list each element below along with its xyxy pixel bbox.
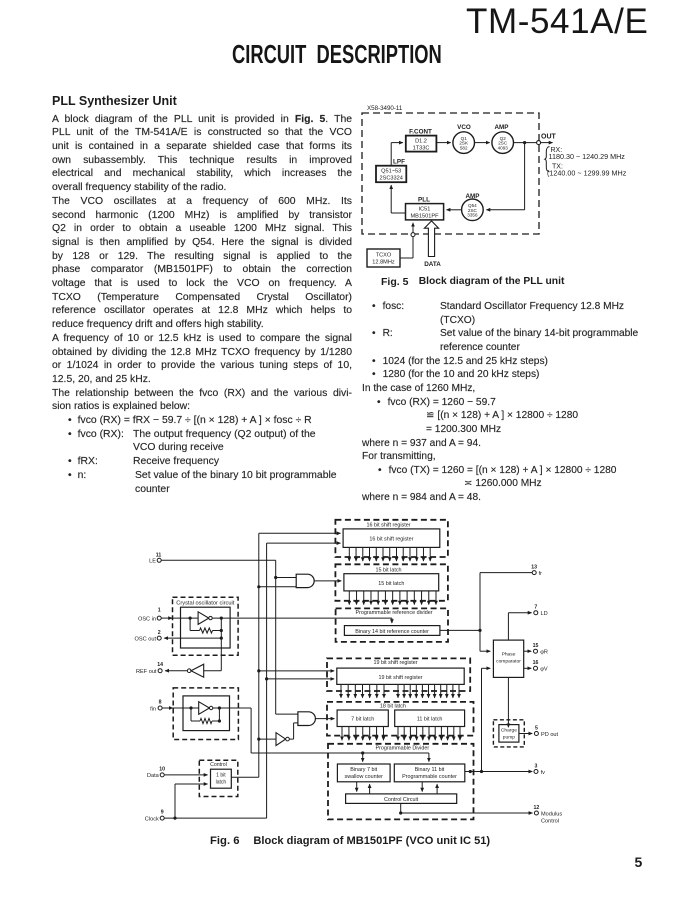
svg-text:Binary 11 bit: Binary 11 bit	[415, 767, 445, 773]
heading CIRCUIT DESCRIPTION	[232, 39, 442, 70]
svg-text:TCXO: TCXO	[376, 253, 392, 259]
svg-text:fr: fr	[539, 571, 543, 577]
svg-text:2SC3324: 2SC3324	[380, 176, 403, 182]
wire AND1 output to 15 bit latch	[314, 580, 341, 582]
Binary 7 bit swallow counter box	[337, 764, 390, 782]
pin 15 phiR terminal	[524, 643, 548, 656]
svg-text:LD: LD	[541, 611, 548, 617]
pin 2 OSC out terminal	[135, 630, 162, 643]
svg-text:φV: φV	[540, 667, 548, 673]
svg-text:Clock: Clock	[145, 816, 159, 822]
svg-text:15: 15	[533, 643, 539, 649]
wire OSC in through inverter to reference divider	[161, 618, 392, 623]
fin inverter U2	[199, 702, 213, 715]
svg-text:Data: Data	[147, 773, 160, 779]
svg-text:Control: Control	[541, 818, 559, 824]
svg-text:D1.2: D1.2	[415, 139, 427, 145]
svg-text:Q51~53: Q51~53	[381, 169, 401, 175]
left column body text	[52, 113, 352, 497]
pin 9 Clock terminal	[145, 810, 164, 823]
LPF label	[393, 159, 405, 166]
svg-text:DATA: DATA	[424, 261, 441, 268]
svg-text:9: 9	[161, 810, 164, 816]
pin 14 REF out terminal	[136, 662, 163, 675]
svg-text:latch: latch	[216, 779, 227, 785]
svg-text:Phase: Phase	[502, 652, 516, 658]
svg-text:Programmable reference divider: Programmable reference divider	[355, 610, 432, 616]
16 bit shift register box	[343, 529, 440, 548]
svg-text:15 bit latch: 15 bit latch	[378, 581, 404, 587]
svg-text:OSC out: OSC out	[135, 636, 157, 642]
18 bit latch dashed box	[327, 702, 474, 736]
fr riser wire	[480, 573, 532, 652]
svg-text:16 bit shift register: 16 bit shift register	[369, 537, 413, 543]
svg-text:7 bit latch: 7 bit latch	[351, 717, 374, 723]
wire fin to programmable divider	[162, 708, 429, 762]
svg-text:16: 16	[533, 660, 539, 666]
wire reference counter to fr node	[440, 629, 482, 632]
VCO transistor Q1 2SK582 circle	[453, 132, 475, 154]
svg-text:IC51: IC51	[419, 206, 431, 212]
svg-text:pump: pump	[503, 736, 516, 741]
wire Q54 to PLL	[447, 209, 462, 211]
svg-text:10: 10	[159, 766, 165, 772]
wire data bus to 16SR input	[259, 532, 341, 534]
AND gate A2 (LE strobe lower)	[298, 712, 316, 726]
OUT terminal	[537, 134, 557, 145]
pin 12 Modulus Control terminal	[534, 805, 563, 825]
pin 5 PD out terminal	[519, 725, 559, 738]
svg-text:1180.30 ~ 1240.29 MHz: 1180.30 ~ 1240.29 MHz	[549, 152, 626, 161]
svg-text:19 bit shift register: 19 bit shift register	[378, 675, 422, 681]
svg-text:X58-3490-11: X58-3490-11	[367, 105, 403, 112]
fin feedback resistor R2	[189, 706, 221, 723]
svg-text:LPF: LPF	[393, 159, 405, 166]
svg-text:15 bit latch: 15 bit latch	[375, 568, 401, 574]
svg-text:4093: 4093	[498, 145, 509, 150]
svg-text:12.8MHz: 12.8MHz	[372, 260, 395, 266]
Control dashed box	[199, 760, 238, 796]
svg-text:fv: fv	[541, 770, 546, 776]
svg-text:19 bit shift register: 19 bit shift register	[373, 660, 417, 666]
arrows 19SR to 18bit latch	[341, 684, 459, 697]
svg-text:Programmable Divider: Programmable Divider	[375, 746, 429, 752]
svg-text:OSC in: OSC in	[138, 616, 156, 622]
svg-text:REF out: REF out	[136, 669, 157, 675]
wire AND1 lower input from data bus	[257, 585, 296, 588]
wire Data to 1 bit latch	[164, 774, 207, 776]
svg-text:φR: φR	[540, 650, 548, 656]
11 bit latch box	[395, 710, 465, 727]
data bus vertical (latch output)	[258, 533, 260, 777]
right column body text	[362, 300, 642, 505]
svg-text:PD out: PD out	[541, 732, 559, 738]
svg-text:8: 8	[159, 700, 162, 706]
Phase comparator box	[493, 640, 523, 677]
F.CONT label	[409, 129, 432, 136]
svg-text:F.CONT: F.CONT	[409, 129, 432, 136]
wire VCO to AMP	[475, 142, 490, 144]
wire programmable counter to fv node	[465, 770, 532, 773]
pin 10 Data terminal	[147, 766, 165, 779]
svg-text:VCO: VCO	[457, 124, 471, 131]
arrows 18L to programmable divider	[342, 727, 460, 741]
svg-text:5: 5	[535, 725, 538, 731]
RX/TX frequency annotation	[545, 147, 627, 178]
pin 16 phiV terminal	[524, 660, 548, 673]
arrows counters and control circuit	[357, 782, 437, 794]
svg-text:18 bit latch: 18 bit latch	[380, 704, 406, 710]
7 bit latch box	[337, 710, 388, 727]
amplifier Q54 2SC3356 circle	[462, 199, 484, 221]
svg-text:swallow counter: swallow counter	[345, 774, 384, 780]
svg-text:Charge: Charge	[501, 728, 517, 734]
wire clock bus to 19SR input	[265, 677, 334, 680]
PLL IC51 MB1501PF box	[406, 204, 444, 220]
Fig. 6 caption	[210, 835, 240, 847]
fin buffer dashed box	[173, 688, 238, 740]
Charge pump dashed box	[493, 720, 524, 747]
svg-text:2: 2	[158, 630, 161, 636]
svg-text:(1240.00 ~ 1299.99 MHz: (1240.00 ~ 1299.99 MHz	[547, 169, 627, 178]
AMP label (Q54)	[466, 193, 480, 200]
Programmable reference divider dashed box	[336, 608, 448, 642]
wire clock to 1 bit latch second input	[173, 784, 207, 820]
svg-text:582: 582	[460, 145, 468, 150]
oscillator feedback resistor R1	[189, 617, 223, 634]
oscillator inner box	[181, 607, 231, 648]
Fig5 board label X58-3490-11	[367, 105, 403, 112]
wire LPF to F.CONT	[391, 143, 403, 166]
Programmable Divider dashed box	[328, 744, 474, 820]
svg-text:Modulus: Modulus	[541, 811, 562, 817]
1 bit latch box	[211, 769, 232, 788]
inverter N1 (clocked data)	[257, 723, 298, 746]
wire AND2 output to 7 bit latch	[315, 718, 334, 720]
svg-text:Crystal oscillator circuit: Crystal oscillator circuit	[176, 600, 235, 606]
wire OUT node down to Q54	[487, 143, 525, 210]
REF out inverter N2	[165, 664, 221, 677]
wire AMP to OUT	[514, 141, 537, 144]
section heading PLL Synthesizer Unit	[52, 94, 177, 108]
svg-text:3356: 3356	[467, 213, 478, 218]
svg-text:fin: fin	[150, 706, 156, 712]
Charge pump box	[499, 725, 519, 743]
svg-text:1 bit: 1 bit	[216, 772, 226, 778]
15 bit latch dashed box	[335, 564, 448, 601]
wire LE to AND gates	[161, 560, 298, 714]
varactor D1,2 box (F.CONT)	[406, 136, 437, 152]
amplifier Q2 2SC4093 circle	[492, 132, 514, 154]
fin buffer inner box	[183, 696, 230, 731]
svg-text:comparator: comparator	[496, 659, 521, 665]
svg-text:AMP: AMP	[495, 124, 509, 131]
TCXO 12.8MHz box	[367, 249, 400, 267]
Control Circuit box	[346, 794, 457, 804]
wire 1 bit latch output to data bus	[231, 776, 258, 778]
svg-text:Control: Control	[210, 762, 227, 768]
wire data bus to 19SR input	[257, 669, 334, 672]
svg-text:Binary 14 bit reference counte: Binary 14 bit reference counter	[355, 629, 429, 635]
svg-text:1T33C: 1T33C	[413, 146, 430, 152]
Binary 14 bit reference counter box	[344, 626, 440, 636]
wire OSC out from oscillator node	[164, 618, 223, 671]
svg-text:12: 12	[534, 805, 540, 811]
svg-text:PLL: PLL	[418, 196, 430, 203]
svg-text:Programmable counter: Programmable counter	[402, 774, 457, 780]
svg-text:1: 1	[158, 608, 161, 614]
clock bus vertical	[266, 543, 268, 818]
arrows 16SR to 15bit latch	[349, 547, 430, 561]
wire PLL to LPF	[391, 185, 405, 213]
LPF box Q51~53 2SC3324	[376, 166, 406, 183]
PLL label	[418, 196, 430, 203]
svg-text:14: 14	[157, 662, 163, 668]
svg-text:7: 7	[534, 605, 537, 611]
crystal oscillator circuit (OSC) dashed box	[173, 597, 239, 655]
15 bit latch box	[344, 574, 439, 591]
wire control circuit to modulus control	[399, 803, 532, 814]
VCO label	[457, 124, 471, 131]
svg-text:OUT: OUT	[541, 134, 557, 141]
wire F.CONT to VCO	[436, 142, 450, 144]
svg-text:11: 11	[156, 552, 162, 558]
pin 13 fr terminal	[531, 564, 542, 577]
pin 11 LE terminal	[149, 552, 161, 564]
pin 8 fin terminal	[150, 700, 162, 713]
svg-text:Binary 7 bit: Binary 7 bit	[350, 767, 377, 773]
wire clock bus to 16SR input	[267, 542, 341, 544]
svg-text:3: 3	[535, 763, 538, 769]
wire Clock to clock bus	[164, 817, 266, 819]
fv riser wire to phase comparator	[482, 668, 491, 771]
Binary 11 bit programmable counter box	[394, 764, 465, 782]
AMP label (Q2)	[495, 124, 509, 131]
pin 1 OSC in terminal	[138, 608, 161, 623]
Fig5 shield dashed box	[362, 113, 539, 234]
svg-text:MB1501PF: MB1501PF	[411, 213, 440, 219]
Fig. 5 caption	[381, 276, 408, 288]
page title TM-541A/E	[466, 2, 656, 42]
wire TCXO to PLL with shield-crossing terminal	[400, 223, 415, 258]
19 bit shift register box	[337, 668, 464, 684]
svg-text:16 bit shift register: 16 bit shift register	[366, 523, 410, 529]
svg-text:11 bit latch: 11 bit latch	[417, 717, 443, 723]
16 bit shift register dashed box	[335, 520, 448, 557]
wire phase comparator to charge pump	[507, 677, 509, 727]
19 bit shift register dashed box	[327, 658, 470, 691]
page number 5	[635, 854, 643, 870]
svg-text:13: 13	[531, 564, 537, 570]
DATA input open arrow	[424, 221, 441, 268]
svg-text:Control Circuit: Control Circuit	[384, 797, 419, 803]
wire LD from phase comparator	[508, 613, 531, 640]
oscillator inverter U1	[198, 612, 212, 625]
pin 7 LD terminal	[534, 605, 548, 618]
pin 3 fv terminal	[534, 763, 545, 776]
AND gate A1 (LE latch strobe upper)	[296, 574, 314, 587]
svg-text:LE: LE	[149, 559, 156, 565]
arrows 15L to reference divider	[349, 591, 436, 605]
